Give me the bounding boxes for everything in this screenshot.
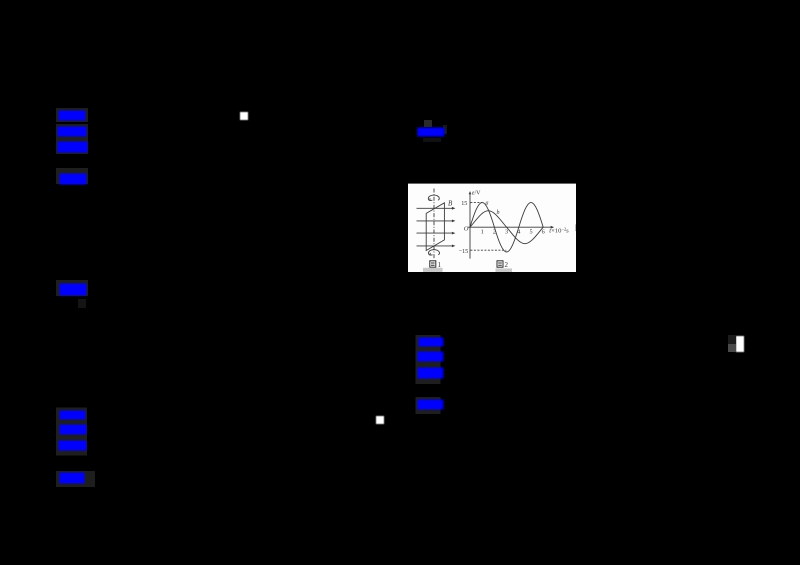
white square answer box 1 xyxy=(240,112,248,120)
curve b (10V, period 6) xyxy=(470,211,543,244)
blue label right row 1 xyxy=(418,338,443,347)
blue label row 2 xyxy=(57,127,86,137)
blue label right top xyxy=(417,128,444,137)
blue label right top grey mark xyxy=(424,120,432,127)
svg-text:3: 3 xyxy=(505,229,508,236)
svg-text:t×10−2s: t×10−2s xyxy=(549,226,569,234)
caption 图1 xyxy=(430,261,436,267)
svg-text:15: 15 xyxy=(461,200,467,207)
faint mark below mid-left label xyxy=(78,299,86,308)
caption highlight bar 1 xyxy=(423,268,443,272)
svg-text:2: 2 xyxy=(493,229,496,236)
blue label box 4 xyxy=(56,168,88,184)
right thin mark xyxy=(574,224,577,231)
svg-text:b: b xyxy=(497,210,500,216)
field arrow 1 xyxy=(417,207,456,210)
blue label right row 4 xyxy=(417,400,443,410)
coil rotation axis (dash-dot) xyxy=(433,189,435,259)
blue label bottom box 4 xyxy=(56,471,95,487)
graph y-axis xyxy=(468,191,554,259)
figure panel xyxy=(408,184,576,272)
coil bottom rotation arrow xyxy=(428,250,439,256)
svg-text:1: 1 xyxy=(481,229,484,236)
grey block left of white bar xyxy=(728,344,736,352)
coil top rotation arrow xyxy=(428,195,439,201)
blue label row 4 xyxy=(59,174,86,185)
svg-text:2: 2 xyxy=(505,261,509,269)
white bar bottom-right xyxy=(736,336,744,352)
blue label mid-left xyxy=(59,284,86,296)
svg-text:O: O xyxy=(464,226,469,233)
graph x-axis xyxy=(468,226,552,228)
dashed line +15 xyxy=(470,201,482,203)
tick labels 1-6 xyxy=(481,229,545,236)
blue label row 1 xyxy=(58,111,85,121)
dark mark above grey block xyxy=(728,335,736,344)
svg-text:a: a xyxy=(486,200,489,206)
curve a (15V, period 4) xyxy=(470,202,543,252)
faint mark below top-right blue label xyxy=(423,138,441,142)
field arrow 3 xyxy=(417,232,456,235)
blue label bottom row 2 xyxy=(59,425,86,435)
blue label group box right-mid xyxy=(416,335,441,384)
blue label right row 2 xyxy=(417,352,443,362)
caption 图2 xyxy=(497,261,503,267)
faint mark right of top blue label xyxy=(443,125,447,134)
svg-text:B: B xyxy=(448,200,453,208)
svg-text:−15: −15 xyxy=(459,248,469,255)
dashed line -15 xyxy=(470,249,506,251)
blue label bottom row 3 xyxy=(58,441,86,451)
blue label bottom row 4 xyxy=(59,473,84,484)
svg-text:6: 6 xyxy=(542,229,545,236)
blue label right row 3 xyxy=(417,368,443,379)
blue label mid-left box xyxy=(56,280,88,296)
svg-text:5: 5 xyxy=(529,229,532,236)
field arrow 2 xyxy=(417,220,456,223)
field arrow 4 xyxy=(417,245,456,248)
blue label right box 4 xyxy=(416,397,441,414)
coil parallelogram xyxy=(426,203,444,251)
white square answer box 2 xyxy=(376,416,384,424)
blue label group box top-left xyxy=(56,108,88,122)
caption highlight bar 2 xyxy=(496,268,513,272)
blue label row 3 xyxy=(57,142,87,153)
blue label bottom row 1 xyxy=(59,411,85,420)
blue label group box bottom-left xyxy=(56,408,87,456)
svg-text:e/V: e/V xyxy=(472,191,481,197)
svg-text:4: 4 xyxy=(517,229,520,236)
